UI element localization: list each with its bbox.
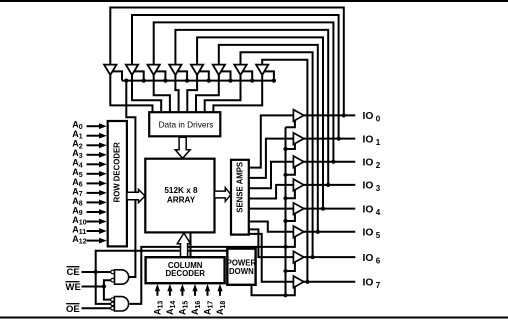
svg-text:WE: WE	[66, 282, 81, 293]
svg-text:2: 2	[79, 143, 83, 150]
wire IO2 output line	[303, 161, 355, 163]
row decoder box	[108, 121, 127, 246]
svg-text:A16: A16	[190, 301, 202, 315]
wire address A12 arrow	[87, 240, 101, 242]
svg-text:11: 11	[79, 229, 87, 236]
svg-text:512K x 8: 512K x 8	[164, 186, 198, 195]
svg-text:IO: IO	[363, 111, 374, 122]
wire WE branch to gate 1	[104, 280, 111, 286]
wire address A3 arrow	[87, 154, 101, 156]
wire address A0 arrow	[87, 125, 101, 127]
svg-text:2: 2	[376, 161, 381, 170]
input data driver buffer 4	[169, 65, 181, 75]
wire input driver 7 output	[205, 75, 241, 114]
svg-text:8: 8	[79, 200, 83, 207]
hollow arrow data drivers to array	[175, 137, 190, 158]
wire address A8 arrow	[87, 201, 101, 203]
input data driver buffer 7	[234, 65, 246, 75]
wire address A16 arrow	[194, 290, 196, 296]
junction dot rail stub 7	[250, 79, 254, 83]
junction dot on IO7 line	[305, 280, 309, 284]
svg-text:3: 3	[79, 153, 83, 160]
svg-text:1: 1	[376, 138, 381, 147]
wire enable stub driver 7	[243, 71, 253, 80]
wire address A18 arrow	[219, 290, 221, 296]
svg-text:SENSE AMPS: SENSE AMPS	[235, 162, 244, 213]
wire input driver 1 output	[110, 75, 152, 114]
wire input-driver enable rail	[122, 80, 274, 82]
junction dot enable channel bottom	[283, 293, 287, 297]
input data driver buffer 1	[104, 65, 116, 75]
output buffer IO4	[293, 203, 303, 215]
svg-text:6: 6	[79, 181, 83, 188]
svg-text:5: 5	[79, 172, 83, 179]
junction dot on IO6 line	[311, 255, 315, 259]
wire IO3 input bus	[175, 30, 328, 185]
svg-text:IO: IO	[363, 134, 374, 145]
input data driver buffer 2	[126, 65, 138, 75]
output buffer IO6	[293, 251, 303, 263]
wire sense amp output to buffer IO7	[249, 234, 293, 282]
svg-text:A18: A18	[215, 301, 227, 315]
output buffer IO2	[293, 156, 303, 168]
junction dot CE	[94, 270, 98, 274]
svg-text:A14: A14	[165, 301, 177, 315]
svg-text:IO: IO	[363, 204, 374, 215]
svg-text:CE: CE	[67, 267, 80, 278]
wire enable stub driver 5	[199, 71, 209, 80]
wire address A1 arrow	[87, 135, 101, 137]
wire address A4 arrow	[87, 163, 101, 165]
junction dot enable channel IO2	[283, 173, 287, 177]
junction dot on IO1 line	[337, 137, 341, 141]
svg-text:A15: A15	[178, 301, 190, 315]
wire input driver 4 output	[175, 75, 178, 114]
svg-text:IO: IO	[363, 253, 374, 264]
wire sense amp output to buffer IO2	[249, 162, 293, 189]
input data driver buffer 6	[213, 65, 225, 75]
wire enable stub buffer IO3	[286, 190, 295, 199]
wire IO7 input bus	[262, 60, 307, 282]
wire output buffer enable channel	[285, 127, 287, 295]
svg-text:1: 1	[79, 134, 83, 141]
wire IO0 input bus	[110, 8, 343, 116]
wire sense amp output to buffer IO3	[249, 185, 293, 199]
wire address A9 arrow	[87, 211, 101, 213]
hollow arrow array to sense amps	[215, 188, 231, 202]
junction dot on IO4 line	[321, 207, 325, 211]
svg-text:10: 10	[79, 220, 87, 227]
wire enable stub buffer IO5	[286, 236, 295, 247]
wire address A10 arrow	[87, 221, 101, 223]
junction dot rail stub 3	[163, 79, 167, 83]
svg-text:12: 12	[79, 239, 87, 246]
wire input driver 2 output	[132, 75, 161, 114]
wire IO2 input bus	[154, 22, 334, 161]
top rule	[0, 0, 508, 2]
svg-text:DECODER: DECODER	[165, 269, 205, 278]
sense amps box	[231, 160, 249, 235]
output buffer IO0	[293, 110, 303, 122]
wire address A17 arrow	[207, 290, 209, 296]
svg-text:OE: OE	[66, 304, 80, 315]
wire IO6 input bus	[241, 52, 313, 257]
wire WE input	[82, 286, 104, 288]
svg-text:IO: IO	[363, 158, 374, 169]
svg-text:0: 0	[376, 115, 381, 124]
wire enable stub driver 4	[177, 71, 187, 80]
gate U2 output enable input bubble CE	[111, 302, 115, 306]
junction dot WE	[102, 284, 106, 288]
power down box	[227, 249, 255, 285]
wire write-enable feed to rail	[126, 81, 135, 277]
wire power down to enable channel	[252, 285, 295, 296]
svg-text:3: 3	[376, 184, 381, 193]
wire IO5 input bus	[219, 45, 318, 232]
input data driver buffer 5	[191, 65, 203, 75]
wire address A6 arrow	[87, 182, 101, 184]
gate U2 output enable	[114, 297, 128, 311]
wire IO3 output line	[303, 184, 355, 186]
gate U1 write control	[115, 270, 129, 284]
junction dot enable channel IO1	[283, 147, 287, 151]
output buffer IO1	[293, 133, 303, 145]
hollow arrow column decoder to array	[177, 233, 190, 257]
junction dot rail stub 4	[185, 79, 189, 83]
wire sense amp output to buffer IO0	[249, 115, 293, 167]
junction dot rail feed	[124, 79, 128, 83]
wire address A7 arrow	[87, 192, 101, 194]
wire enable stub buffer IO6	[286, 262, 295, 271]
wire address A5 arrow	[87, 173, 101, 175]
svg-text:A17: A17	[203, 301, 215, 315]
wire address A11 arrow	[87, 230, 101, 232]
wire input driver 5 output	[187, 75, 197, 114]
svg-text:ROW DECODER: ROW DECODER	[112, 142, 121, 203]
wire enable stub driver 8	[264, 71, 274, 80]
svg-text:9: 9	[79, 210, 83, 217]
svg-text:IO: IO	[363, 278, 374, 289]
wire enable stub driver 2	[134, 71, 144, 80]
wire address A2 arrow	[87, 144, 101, 146]
svg-text:4: 4	[79, 162, 83, 169]
bottom rule	[0, 317, 508, 319]
wire CE branch to gate 2	[96, 272, 111, 304]
wire output-enable from gate to buffers	[130, 247, 286, 304]
junction dot on IO3 line	[326, 183, 330, 187]
data in drivers box	[149, 112, 220, 136]
junction dot enable channel IO4	[283, 219, 287, 223]
wire sense amp output to buffer IO1	[249, 139, 293, 178]
gate U1 write control input bubble CE	[111, 270, 115, 274]
junction dot on IO2 line	[331, 160, 335, 164]
junction dot rail stub 8	[272, 79, 276, 83]
wire enable stub buffer IO4	[286, 213, 295, 221]
wire IO7 output line	[303, 281, 355, 283]
junction dot on IO0 line	[342, 113, 346, 117]
wire IO1 output line	[303, 138, 355, 140]
wire enable stub driver 3	[156, 71, 166, 80]
wire WE branch to gate 2	[104, 287, 111, 300]
wire input driver 6 output	[196, 75, 219, 114]
wire IO4 input bus	[197, 37, 323, 208]
wire address A14 arrow	[169, 290, 171, 296]
gate U2 output enable input bubble OE	[111, 306, 115, 310]
svg-text:A13: A13	[153, 301, 165, 315]
wire chip-enable to power down	[96, 251, 228, 272]
wire address A13 arrow	[156, 290, 158, 296]
output buffer IO3	[293, 179, 303, 191]
wire CE input	[82, 271, 111, 273]
junction dot enable channel IO3	[283, 196, 287, 200]
wire enable stub driver 6	[221, 71, 231, 80]
wire IO5 output line	[303, 231, 355, 233]
junction dot enable channel IO6	[283, 269, 287, 273]
svg-text:4: 4	[376, 208, 381, 217]
wire IO1 input bus	[132, 15, 339, 139]
junction dot rail stub 2	[142, 79, 146, 83]
svg-text:5: 5	[376, 231, 381, 240]
wire sense amp output to buffer IO5	[249, 222, 293, 232]
input data driver buffer 3	[148, 65, 160, 75]
svg-text:DOWN: DOWN	[229, 267, 254, 276]
array box	[145, 159, 214, 233]
wire enable stub buffer IO1	[286, 143, 295, 149]
wire OE input	[82, 307, 111, 309]
junction dot rail stub 6	[228, 79, 232, 83]
wire IO4 output line	[303, 208, 355, 210]
wire enable stub buffer IO0	[286, 120, 295, 127]
svg-text:0: 0	[79, 124, 83, 131]
wire address A15 arrow	[181, 290, 183, 296]
column decoder box	[146, 257, 225, 283]
wire enable stub driver 1	[112, 71, 122, 80]
svg-text:ARRAY: ARRAY	[167, 196, 196, 205]
svg-text:IO: IO	[363, 228, 374, 239]
wire input driver 8 output	[213, 75, 262, 114]
svg-text:7: 7	[376, 281, 381, 290]
wire sense amp output to buffer IO4	[249, 208, 293, 210]
junction dot on IO5 line	[316, 230, 320, 234]
wire input driver 3 output	[154, 75, 170, 114]
svg-text:IO: IO	[363, 181, 374, 192]
wire IO0 output line	[303, 114, 355, 116]
output buffer IO5	[293, 226, 303, 238]
svg-text:6: 6	[376, 256, 381, 265]
output buffer IO7	[293, 276, 303, 288]
gate U2 output enable input bubble WE	[111, 298, 115, 302]
wire sense amp output to buffer IO6	[249, 229, 293, 257]
svg-text:Data in Drivers: Data in Drivers	[159, 120, 214, 130]
junction dot rail stub 5	[207, 79, 211, 83]
input data driver buffer 8	[256, 65, 268, 75]
svg-text:7: 7	[79, 191, 83, 198]
wire enable stub buffer IO2	[286, 166, 295, 175]
junction dot enable channel IO5	[283, 245, 287, 249]
gate U1 write control input bubble WE	[111, 278, 115, 282]
wire array to column decoder	[190, 232, 192, 256]
wire IO6 output line	[303, 256, 355, 258]
hollow arrow row decoder to array	[127, 189, 145, 202]
